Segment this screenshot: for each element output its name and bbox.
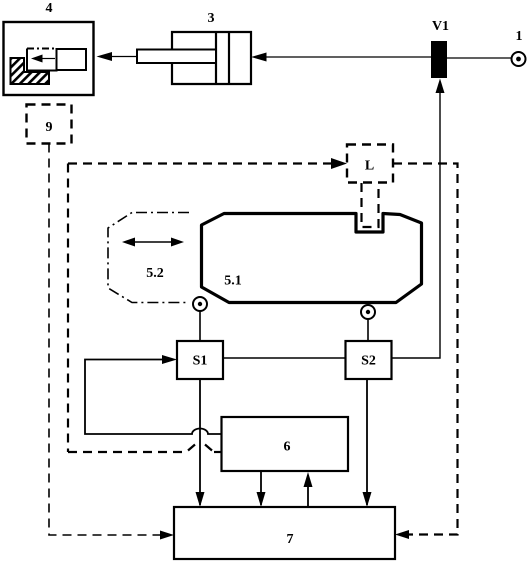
- cylinder 3 rod: [137, 50, 216, 64]
- workpiece (dash-dot top edge): [27, 49, 57, 71]
- profile 5.1 (thick outline with notch): [202, 214, 422, 303]
- box 4 (clamping device): [4, 22, 94, 95]
- label 7: [287, 532, 294, 547]
- svg-text:5.1: 5.1: [224, 274, 242, 289]
- svg-text:9: 9: [46, 120, 53, 135]
- label 9: [46, 120, 53, 135]
- svg-text:5.2: 5.2: [146, 266, 164, 281]
- label 5.2: [146, 266, 164, 281]
- wire 6 to 7 arrow down: [257, 471, 266, 507]
- svg-text:S2: S2: [361, 354, 376, 369]
- wire roller right to S2: [367, 319, 369, 341]
- label 3: [208, 11, 215, 26]
- wire S1 to box 7 with arrow: [196, 379, 205, 507]
- svg-text:4: 4: [46, 1, 53, 16]
- svg-text:3: 3: [208, 11, 215, 26]
- label 4: [46, 1, 53, 16]
- sensor roller right: [361, 305, 375, 319]
- switch S2: [346, 341, 392, 379]
- box 7: [174, 507, 395, 559]
- box 9 (dashed): [27, 105, 72, 144]
- source 1 (circle with dot): [512, 52, 526, 66]
- svg-text:7: 7: [287, 532, 294, 547]
- svg-text:S1: S1: [193, 354, 208, 369]
- sensor roller left: [193, 297, 207, 311]
- feedback wire box6 to S1 with hop and arrow: [85, 355, 221, 434]
- cylinder 3 piston lines: [216, 32, 229, 84]
- dashed enclosure bottom edge with hop over wire: [68, 445, 221, 453]
- component L (dashed box): [347, 145, 393, 183]
- svg-text:V1: V1: [432, 19, 449, 34]
- dashed enclosure top edge with arrow into L: [68, 158, 347, 169]
- wire V1 to source 1: [447, 57, 511, 59]
- pusher block: [57, 49, 87, 70]
- cylinder 3 body: [172, 32, 251, 84]
- switch S1: [177, 341, 223, 379]
- svg-text:1: 1: [516, 29, 523, 44]
- control wire S2-to-V1 with up arrow: [392, 79, 445, 359]
- wire S1 to S2: [223, 357, 346, 359]
- label 6: [284, 440, 291, 455]
- arrow inside workpiece: [31, 55, 55, 63]
- dashed wire 9 to box 7 with arrow: [49, 144, 174, 540]
- double-headed motion arrow: [122, 238, 184, 247]
- label L: [365, 159, 374, 174]
- dashed enclosure left edge: [67, 164, 69, 453]
- hatched clamp fixture: [11, 58, 50, 84]
- box 6: [222, 417, 349, 471]
- valve V1: [431, 41, 447, 78]
- dashed enclosure right edge into box 7 with arrow: [393, 164, 458, 540]
- label S2: [361, 354, 376, 369]
- svg-text:L: L: [365, 159, 374, 174]
- label 5.1: [224, 274, 242, 289]
- phantom profile 5.2 (dash-dot): [108, 213, 189, 303]
- wire roller left to S1: [199, 311, 201, 341]
- svg-text:6: 6: [284, 440, 291, 455]
- plunger below L (dashed): [362, 183, 379, 227]
- label S1: [193, 354, 208, 369]
- wire rod-to-box4 with arrow: [97, 52, 138, 61]
- label 1: [516, 29, 523, 44]
- label V1: [432, 19, 449, 34]
- wire 7 to 6 arrow up: [304, 472, 313, 507]
- wire S2 to box 7 with arrow: [363, 379, 372, 507]
- wire V1 to cylinder with arrow: [251, 53, 431, 62]
